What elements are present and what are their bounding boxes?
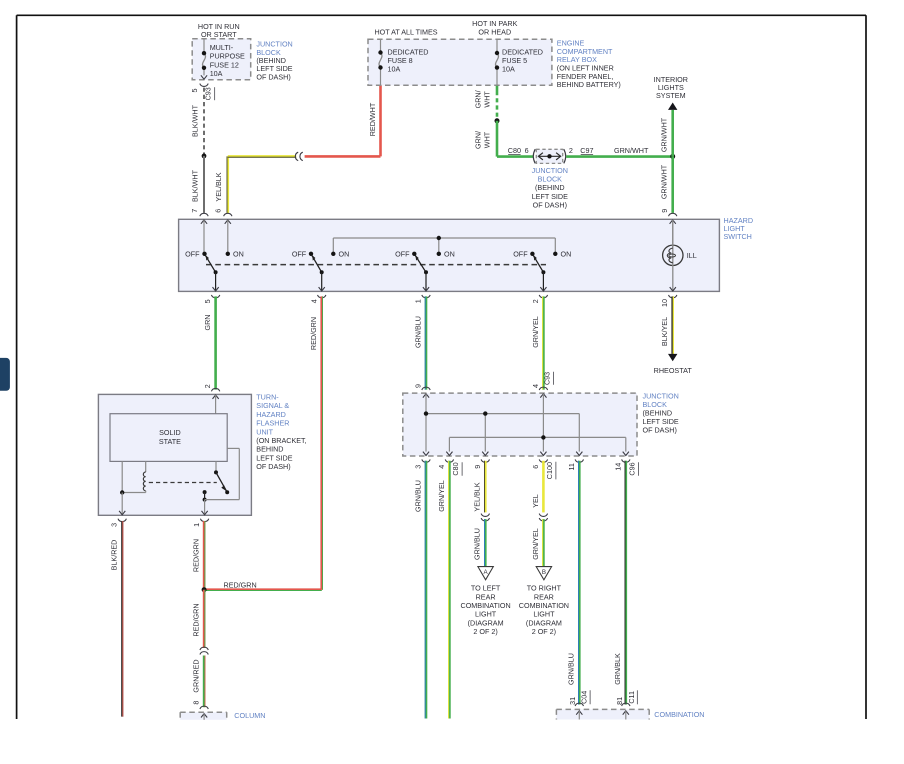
svg-text:COMBINATION: COMBINATION [519,601,569,610]
wire GRN/BLK (junction pin 14 to combination meter) [613,461,637,706]
svg-text:YEL/BLK: YEL/BLK [473,482,482,511]
svg-text:DEDICATED: DEDICATED [502,47,543,56]
svg-text:8: 8 [192,701,201,705]
illumination lamp ILL [663,220,697,291]
junction block top pin 4 / C93 entry [531,372,554,452]
svg-text:RHEOSTAT: RHEOSTAT [654,366,693,375]
combination meter dashed box [556,709,649,719]
svg-text:BLK/YEL: BLK/YEL [660,317,669,346]
svg-text:BLK/WHT: BLK/WHT [191,104,200,137]
engine compartment relay box dashed box [368,39,552,85]
engine compartment relay box name label [557,39,621,90]
svg-text:3: 3 [414,465,423,469]
svg-text:FLASHER: FLASHER [256,419,289,428]
switch pole contacts OFF/ON at pin 2 [513,249,571,258]
svg-text:6: 6 [525,146,529,155]
wire GRN/BLU (junction pin 3 down) [413,461,426,719]
inline connector YEL to GRN/YEL [539,514,547,521]
svg-text:1: 1 [192,523,201,527]
svg-text:TO LEFT: TO LEFT [471,584,501,593]
svg-text:C80: C80 [508,146,521,155]
combination meter name label [654,710,704,719]
svg-text:OF DASH): OF DASH) [533,201,567,210]
svg-text:ON: ON [233,249,244,258]
svg-text:2: 2 [203,384,212,388]
svg-text:C04: C04 [580,691,589,704]
svg-text:DEDICATED: DEDICATED [388,47,429,56]
junction block (pass-through) name label [532,166,568,210]
svg-text:2: 2 [569,146,573,155]
wire GRN/YEL to right rear combination light [531,519,544,567]
svg-text:9: 9 [473,465,482,469]
svg-text:GRN/WHT: GRN/WHT [614,146,649,155]
svg-text:10A: 10A [388,64,401,73]
svg-text:GRN/YEL: GRN/YEL [437,480,446,512]
junction block internal bus 2 [449,435,625,451]
svg-text:SOLID: SOLID [159,428,181,437]
svg-text:OF DASH): OF DASH) [643,426,677,435]
svg-text:BEHIND: BEHIND [256,445,283,454]
svg-text:HOT AT ALL TIMES: HOT AT ALL TIMES [374,28,437,37]
svg-text:COMBINATION: COMBINATION [654,710,704,719]
svg-text:6: 6 [213,209,222,213]
wire GRN/BLU (junction pin 11 to combination meter) [567,461,590,706]
feed label HOT IN PARK OR HEAD [472,19,517,36]
wire GRN/WHT from fuse 5, dashed segment [474,86,497,119]
fuse 8 value label [388,47,429,73]
svg-text:1: 1 [414,299,423,303]
svg-text:10A: 10A [210,69,223,78]
hazard light switch box [179,219,720,291]
svg-text:COMBINATION: COMBINATION [461,601,511,610]
svg-text:(BEHIND: (BEHIND [535,183,565,192]
junction block bottom pin 14 exit [613,452,630,471]
svg-text:REAR: REAR [534,592,554,601]
connector pin labels C80 6 / 2 C97 [508,146,649,155]
svg-text:GRN: GRN [203,315,212,331]
lamp to pin 10 exit [660,287,677,307]
svg-text:YEL: YEL [531,494,540,508]
svg-text:GRN/YEL: GRN/YEL [531,528,540,560]
svg-text:7: 7 [190,209,199,213]
svg-text:FUSE 12: FUSE 12 [210,60,239,69]
switch pole lever at pin 4 [312,255,325,291]
svg-text:ON: ON [444,249,455,258]
svg-text:9: 9 [413,384,422,388]
svg-text:GRN/BLU: GRN/BLU [413,480,422,512]
svg-text:C80: C80 [451,462,460,475]
svg-text:6: 6 [531,465,540,469]
flasher unit name label [256,393,306,472]
svg-text:2: 2 [531,299,540,303]
inline connector on YEL/BLK / RED/WHT wire [295,152,302,160]
junction block bottom pin 11 exit [567,452,584,471]
svg-text:10: 10 [660,299,669,307]
svg-text:2 OF 2): 2 OF 2) [532,627,556,636]
svg-text:LIGHT: LIGHT [533,610,555,619]
switch pole contacts OFF/ON at pin 4 [292,249,349,258]
column name label [234,711,265,720]
svg-text:GRN/RED: GRN/RED [191,659,200,692]
svg-text:JUNCTION: JUNCTION [532,166,568,175]
junction block name label [256,40,292,82]
svg-text:5: 5 [190,89,199,93]
column dashed box [180,712,227,720]
svg-text:C100: C100 [545,462,554,479]
svg-text:MULTI-: MULTI- [210,43,234,52]
svg-text:LEFT SIDE: LEFT SIDE [532,192,568,201]
svg-text:GRN/WHT: GRN/WHT [660,117,669,152]
wire RED/GRN (switch pin 4 down) [309,296,323,589]
splice node on BLK/WHT [202,154,207,159]
svg-text:GRN/WHT: GRN/WHT [660,164,669,199]
svg-text:11: 11 [567,463,576,470]
svg-text:OFF: OFF [292,249,307,258]
switch pole lever at pin 5 [205,255,219,291]
svg-text:COLUMN: COLUMN [234,711,265,720]
svg-text:OFF: OFF [185,249,200,258]
svg-text:ON: ON [339,249,350,258]
switch pin 2 exit connector [531,295,548,303]
svg-text:RED/GRN: RED/GRN [309,317,318,350]
svg-text:GRN/BLU: GRN/BLU [413,316,422,348]
fuse 5 value label [502,47,543,73]
fuse 12 value label [210,43,245,78]
switch pole contacts OFF/ON at pin 1 [395,249,455,258]
off-page triangle A to left rear combination light [461,567,511,637]
wire RED/GRN horizontal to flasher output node [204,580,322,590]
svg-text:4: 4 [437,465,446,469]
svg-text:HAZARD: HAZARD [256,410,286,419]
wire GRN/WHT right of connector [566,155,673,158]
wire GRN/YEL (junction pin 4 down) [437,461,450,719]
flasher pin 1 exit [192,500,209,527]
svg-text:SIGNAL &: SIGNAL & [256,401,289,410]
svg-text:LEFT SIDE: LEFT SIDE [256,453,292,462]
svg-text:RED/GRN: RED/GRN [191,603,200,636]
off-page arrow to interior lights system [654,75,688,110]
svg-text:31: 31 [568,697,577,705]
wire BLK/RED (flasher pin 3 down) [109,521,122,717]
junction block internal bus 1 [424,411,580,451]
wire GRN/RED (to column pin 8) [191,656,208,710]
relay coil L1 [143,461,145,492]
flasher pin 3 exit [110,493,127,527]
fuse 5 symbol [495,40,499,85]
wire BLK/WHT (fuse 12 to hazard switch pin 7), dashed upper segment [191,88,204,155]
off-page triangle B to right rear combination light [519,567,569,637]
svg-text:REAR: REAR [476,592,496,601]
svg-text:SWITCH: SWITCH [724,232,752,241]
svg-text:OFF: OFF [395,249,410,258]
relay output node and feedback wire [203,448,240,501]
svg-text:PURPOSE: PURPOSE [210,52,245,61]
turn-signal and hazard flasher unit box U1 [98,394,251,515]
splice node on GRN/WHT [495,118,500,123]
junction block bottom pin 3 exit [414,452,431,469]
svg-text:(DIAGRAM: (DIAGRAM [526,618,562,627]
wire GRN (switch pin 5 to flasher unit pin 2) [203,296,215,389]
svg-text:OR HEAD: OR HEAD [478,28,511,37]
svg-text:SYSTEM: SYSTEM [656,91,686,100]
svg-text:WHT: WHT [483,91,492,108]
svg-text:GRN/: GRN/ [474,90,483,108]
svg-text:9: 9 [660,209,669,213]
fuse 8 symbol [378,40,382,85]
svg-text:ON: ON [561,249,572,258]
svg-text:UNIT: UNIT [256,427,273,436]
junction block (fuse 12) dashed box [192,39,251,80]
wire RED/GRN continues down [191,590,205,648]
switch pole lever at pin 1 [415,255,429,291]
hazard light switch name label [724,216,754,241]
svg-text:3: 3 [110,523,119,527]
svg-text:B: B [542,569,546,576]
wire RED/GRN (flasher pin 1 down) [191,521,205,590]
junction block (middle) name label [643,392,679,435]
svg-text:OR START: OR START [201,30,237,39]
feed label HOT AT ALL TIMES [374,28,437,37]
relay actuation dashed link [149,482,217,484]
wire GRN/WHT down to junction block connector [474,121,533,157]
junction block pass-through connector C80/C97 [533,149,565,163]
wire GRN/BLU to left rear combination light [473,519,486,567]
svg-text:GRN/: GRN/ [474,131,483,149]
svg-text:GRN/BLU: GRN/BLU [473,528,482,560]
svg-text:4: 4 [531,384,540,388]
svg-text:(ON BRACKET,: (ON BRACKET, [256,436,306,445]
junction block (middle) dashed box [403,393,637,456]
svg-text:C96: C96 [627,462,636,475]
wire GRN/YEL (switch pin 2 to junction block pin 4) [531,296,544,389]
junction block bottom pin 4 exit [437,452,454,469]
switch pin 5 exit connector [203,295,220,303]
svg-text:STATE: STATE [159,437,181,446]
wire YEL/BLK (hazard switch pin 6 up and right) [213,156,296,213]
svg-text:RED/GRN: RED/GRN [224,580,257,589]
fuse 12 symbol [201,39,207,79]
svg-text:GRN/YEL: GRN/YEL [531,316,540,348]
wire YEL/BLK (junction pin 9 down) [473,461,486,513]
wire YEL (junction pin 6 down) [531,461,544,513]
wire BLK/YEL (switch pin 10 to rheostat) [660,296,674,354]
svg-text:OFF: OFF [513,249,528,258]
svg-text:BLK/RED: BLK/RED [109,540,118,571]
connector C93 pin 5 at fuse 12 output [190,84,215,101]
switch mechanical linkage dashed line [206,264,546,266]
wire GRN/WHT down to hazard switch pin 9 [660,157,673,213]
off-page arrow to rheostat [654,354,693,375]
switch pole contacts OFF/ON at pin 5 [185,249,244,258]
svg-text:YEL/BLK: YEL/BLK [214,172,223,201]
inline connector YEL/BLK to GRN/BLU [481,514,489,521]
wire GRN/BLU (switch pin 1 to junction block pin 9) [413,296,426,389]
relay contact and lever [214,461,229,494]
svg-text:ILL: ILL [687,251,697,260]
switch pin 4 exit connector [309,295,326,303]
svg-text:WHT: WHT [483,131,492,148]
connector C100 label (bottom pin 6) [545,462,556,480]
wire RED/WHT (connector to dedicated fuse 8) [305,85,381,156]
svg-text:LIGHT: LIGHT [475,610,497,619]
switch pole lever at pin 2 [533,255,547,291]
svg-text:GRN/BLK: GRN/BLK [613,653,622,685]
svg-text:(DIAGRAM: (DIAGRAM [468,618,504,627]
svg-text:BEHIND BATTERY): BEHIND BATTERY) [557,80,621,89]
switch internal ON bus wire [333,236,555,254]
coil return wire to pin 3 branch [120,461,146,494]
svg-text:10A: 10A [502,64,515,73]
connector C80 label (bottom pin 4) [451,462,462,475]
svg-text:C97: C97 [580,146,593,155]
junction node GRN/WHT [670,154,675,159]
svg-text:RED/GRN: RED/GRN [191,539,200,572]
switch pin 7 entry [200,213,208,253]
junction block bottom pin 6 exit [531,452,548,469]
svg-text:BLK/WHT: BLK/WHT [191,169,200,202]
switch pin 6 entry [224,213,232,253]
junction node RED/GRN [202,587,207,592]
svg-text:C11: C11 [627,691,636,704]
left navigation tab [0,358,10,391]
switch pin 9 entry [669,213,677,247]
svg-text:TURN-: TURN- [256,393,279,402]
svg-text:BLOCK: BLOCK [538,175,563,184]
flasher pin 2 entry [203,384,220,414]
svg-text:OF DASH): OF DASH) [256,72,290,81]
svg-text:TO RIGHT: TO RIGHT [527,584,562,593]
switch pin 1 exit connector [414,295,431,303]
svg-text:C93: C93 [542,372,551,385]
svg-text:5: 5 [203,299,212,303]
junction block bottom pin 9 exit [473,452,490,469]
svg-text:14: 14 [613,463,622,471]
wire BLK/WHT lower segment [190,156,204,213]
svg-text:2 OF 2): 2 OF 2) [473,627,497,636]
svg-text:4: 4 [309,299,318,303]
junction block top pin 9 entry [413,384,430,452]
svg-text:OF DASH): OF DASH) [256,462,290,471]
svg-text:GRN/BLU: GRN/BLU [567,653,576,685]
solid state module box [110,414,227,462]
inline connector RED/GRN to GRN/RED [200,647,208,654]
connector C96 label (bottom pin 14) [627,462,638,475]
svg-text:RED/WHT: RED/WHT [368,102,377,136]
wire GRN/WHT up to interior lights system [660,110,673,157]
feed label HOT IN RUN OR START [198,22,240,39]
